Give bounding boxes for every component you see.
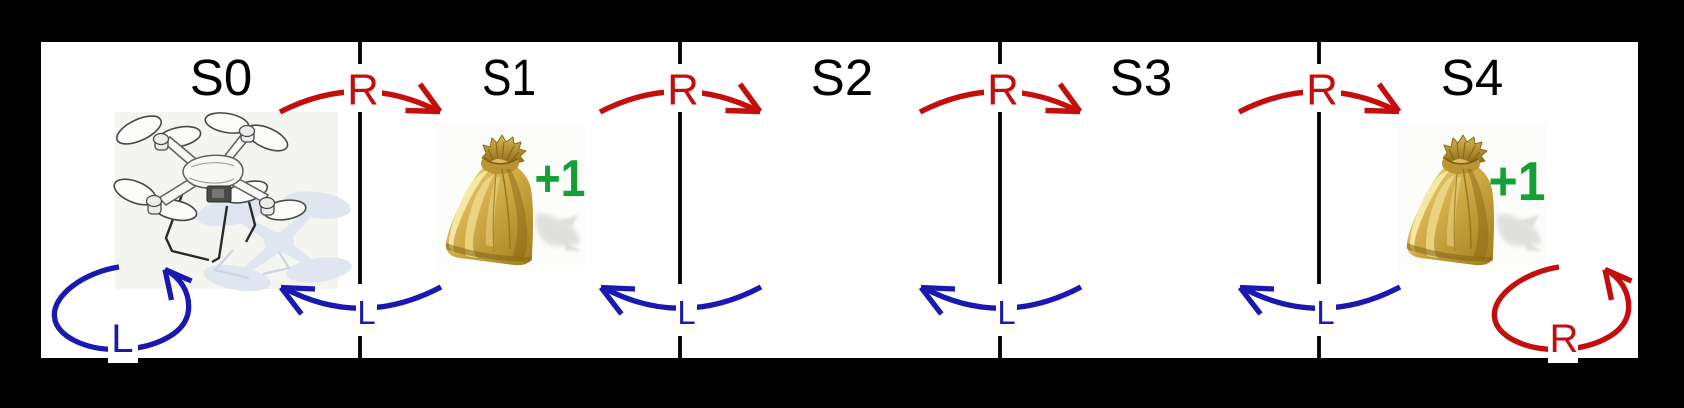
propellers [111,110,307,224]
svg-text:L: L [997,294,1015,331]
svg-text:R: R [347,66,379,115]
figure background [41,42,1638,358]
L action arcs (leftward, blue) [54,267,1400,350]
svg-text:S3: S3 [1110,49,1172,106]
arc S3->S4 [1239,84,1399,112]
drone photo at S0 [111,110,354,296]
motors [147,126,275,216]
gold bag photo at S1 [436,123,585,271]
arc S0->S1 [280,84,440,112]
gold bag photo at S4 [1397,123,1546,271]
L labels on arcs [357,294,1334,331]
arc S4->S3 [1240,287,1400,314]
svg-text:L: L [1316,294,1334,331]
svg-text:S1: S1 [482,49,536,106]
white label boxes [108,64,1578,363]
R action arcs (rightward, red) [280,84,1632,350]
drone shadow (soft blue-gray, lower right) [194,187,353,295]
svg-text:R: R [1549,317,1578,361]
gimbal camera [207,186,231,202]
R labels on arcs [347,66,1338,115]
svg-text:S4: S4 [1441,49,1503,106]
svg-text:S2: S2 [811,49,873,106]
leg shadows (crisper) [215,250,289,278]
L self-loop at S0 [54,267,191,350]
svg-text:L: L [357,294,375,331]
svg-text:S0: S0 [190,49,252,106]
arc S2->S1 [601,287,761,314]
arc S2->S3 [920,84,1080,112]
dashed state boundary lines [360,42,1319,358]
svg-text:R: R [987,66,1019,115]
arc S3->S2 [921,287,1081,314]
svg-text:R: R [1306,66,1338,115]
drone legs [166,192,255,262]
svg-text:+1: +1 [1489,150,1546,212]
svg-text:L: L [111,317,133,361]
svg-text:R: R [667,66,699,115]
arc S1->S2 [600,84,760,112]
arms + body [159,130,268,205]
arc S1->S0 [281,287,441,314]
svg-text:+1: +1 [535,150,586,208]
svg-text:L: L [677,294,695,331]
R self-loop at S4 [1494,267,1631,350]
